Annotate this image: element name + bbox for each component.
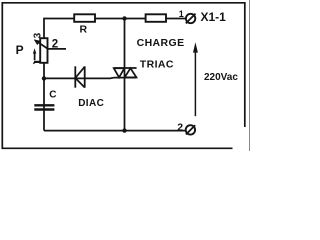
- resistor R1: [74, 14, 95, 21]
- svg-text:TRIAC: TRIAC: [140, 59, 174, 71]
- wire top to terminal 1: [166, 18, 185, 20]
- potentiometer P body: [40, 38, 47, 63]
- triac bottom bar: [114, 77, 137, 79]
- svg-text:220Vac: 220Vac: [204, 72, 238, 83]
- pot wiper lead horizontal: [48, 48, 66, 50]
- terminal X1-2 screw symbol: [186, 125, 196, 134]
- svg-text:X1-1: X1-1: [201, 10, 227, 24]
- svg-text:P: P: [16, 43, 24, 57]
- wire pot bottom down to bottom rail: [43, 63, 45, 131]
- capacitor C top plate: [34, 104, 54, 106]
- svg-text:DIAC: DIAC: [78, 98, 104, 109]
- diac D1: [75, 66, 84, 87]
- wire top between R and fuse box: [95, 18, 146, 20]
- pot wiper diagonal arrow: [37, 41, 49, 49]
- svg-text:R: R: [80, 23, 88, 35]
- 220Vac arrow shaft: [194, 50, 196, 116]
- pot adjust arrowhead: [33, 48, 36, 53]
- junction dot top: [122, 16, 126, 20]
- svg-text:2: 2: [52, 38, 58, 50]
- triac T1 vertical wire through: [124, 19, 126, 131]
- junction dot left: [42, 76, 46, 80]
- svg-text:CHARGE: CHARGE: [137, 37, 185, 49]
- triac left triangle: [114, 68, 125, 77]
- svg-text:1: 1: [179, 9, 184, 19]
- capacitor C bottom plate: [34, 108, 54, 110]
- svg-text:3: 3: [32, 32, 43, 38]
- pin label 1 (rotated): [34, 62, 40, 64]
- wire junction to diac and triac gate: [44, 77, 114, 80]
- triac top bar: [114, 67, 137, 69]
- pot wiper arrowhead: [34, 39, 41, 45]
- terminal X1-1 screw symbol: [186, 14, 196, 24]
- junction dot bottom: [122, 128, 126, 132]
- svg-text:C: C: [49, 89, 56, 100]
- bottom rail wire: [44, 130, 185, 132]
- pot adjust arrow shaft: [34, 53, 36, 60]
- resistor/fuse box top right: [146, 14, 166, 21]
- 220Vac arrowhead: [193, 42, 198, 52]
- wire top horizontal: [44, 19, 74, 39]
- triac right triangle: [125, 68, 137, 77]
- svg-text:2: 2: [177, 121, 183, 133]
